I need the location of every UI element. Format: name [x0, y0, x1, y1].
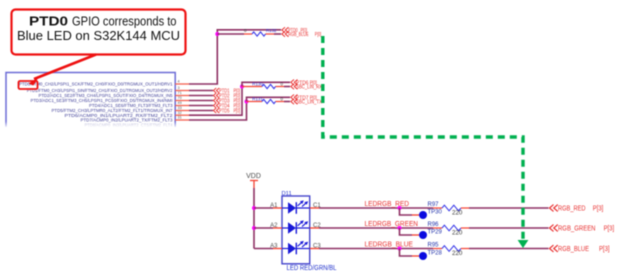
junction R131: [245, 100, 249, 104]
wire PTD5: [189, 110, 213, 112]
wire R132 to RGB_BLUE label: [274, 33, 281, 35]
wire R131 to SBC_LIN_TX label: [284, 101, 290, 103]
svg-text:R96: R96: [428, 222, 440, 228]
wire VDD to A3: [254, 248, 273, 250]
net label PTD1: [213, 88, 219, 93]
wire R130 to SBC_LIN_RX label: [284, 86, 290, 88]
junction at PTD0 / R132: [215, 32, 219, 36]
svg-text:70: 70: [178, 96, 182, 100]
svg-text:A1: A1: [270, 203, 278, 209]
svg-text:R131: R131: [252, 96, 263, 101]
wire PTD0 to R132: [217, 33, 244, 35]
junction TP29: [398, 226, 402, 230]
MCU pin 1 lead: [175, 100, 189, 102]
svg-text:220: 220: [452, 229, 463, 236]
D11 pin A1: [273, 207, 282, 209]
svg-text:R130: R130: [252, 81, 263, 86]
wire R96 to port: [469, 227, 549, 229]
svg-text:32: 32: [178, 111, 182, 115]
MCU pin 70 lead: [175, 110, 189, 112]
MCU pin 2 lead: [175, 95, 189, 97]
LED element red (row 1): [282, 200, 310, 213]
port RGB_BLUE: [550, 245, 558, 252]
net label PTD5: [213, 108, 219, 113]
MCU pin 3 lead: [175, 90, 189, 92]
junction R130: [240, 85, 244, 89]
wire R95 to port: [469, 248, 549, 250]
annotation arrow (green dashed): [323, 36, 523, 240]
net label SBC_LIN_RX: [291, 84, 298, 90]
resistor R130 leads: [242, 86, 262, 88]
svg-text:LEDRGB_RED: LEDRGB_RED: [365, 201, 410, 208]
wire PTD0 net: pin4 right then up to junction: [189, 34, 217, 84]
svg-text:220: 220: [452, 209, 463, 216]
svg-text:TP28: TP28: [428, 250, 443, 256]
svg-text:4: 4: [178, 80, 180, 84]
test point TP28: [400, 249, 413, 257]
net label PTD3: [213, 98, 219, 103]
LED D11 symbol body: [282, 196, 310, 264]
wire PTD6 feed: right then up to R130 junction: [189, 87, 242, 116]
net label PTD2: [213, 93, 219, 98]
PTD0 highlight box on pin name: [19, 81, 38, 89]
wire PTD0 to net label (upper branch): [217, 30, 281, 34]
svg-text:P[3]: P[3]: [599, 246, 610, 253]
wire VDD to A2: [254, 227, 273, 229]
D11 pin C2: [310, 227, 319, 229]
MCU pin 33 lead: [175, 114, 189, 116]
svg-text:GPIO corresponds to: GPIO corresponds to: [72, 14, 177, 29]
wire PTD6 upper branch to label: [242, 82, 290, 86]
svg-text:PTD0: PTD0: [29, 14, 68, 29]
svg-text:R132: R132: [266, 28, 277, 33]
svg-text:LEDRGB_BLUE: LEDRGB_BLUE: [365, 242, 414, 249]
net label PTD7: [291, 95, 298, 101]
resistor R131 body: [262, 99, 276, 103]
svg-text:TP30: TP30: [428, 209, 443, 215]
svg-text:220: 220: [452, 250, 463, 257]
svg-text:RGB_GREEN: RGB_GREEN: [558, 225, 596, 232]
svg-text:LED RED/GRN/BL: LED RED/GRN/BL: [287, 265, 337, 272]
wire PTD3: [189, 100, 213, 102]
wire PTD1: [189, 90, 213, 92]
LED element blue (row 3): [282, 241, 310, 254]
svg-text:A3: A3: [270, 243, 278, 249]
wire LEDRGB_RED: [319, 207, 433, 209]
svg-text:R97: R97: [428, 202, 440, 208]
svg-text:D11: D11: [282, 191, 292, 197]
callout arrow: [34, 55, 96, 80]
D11 pin A3: [273, 248, 282, 250]
port RGB_RED: [550, 205, 558, 212]
svg-text:P[3]: P[3]: [604, 225, 615, 232]
resistor R131 leads: [247, 101, 263, 103]
svg-text:PTD0/FTM0_CH2/LPSPI1_SCK/FTM2_: PTD0/FTM0_CH2/LPSPI1_SCK/FTM2_CH0/FXIO_D…: [19, 82, 173, 87]
net label RGB_BLUE: [282, 31, 289, 37]
test point TP30: [400, 208, 413, 215]
wire R97 to port: [469, 207, 549, 209]
MCU pin 4 lead: [175, 83, 189, 85]
wire VDD to A1: [254, 207, 273, 209]
junction TP28: [398, 247, 402, 251]
junction VDD/A1: [252, 206, 256, 210]
svg-text:3: 3: [178, 86, 180, 90]
resistor R132 leads: [244, 33, 252, 35]
port RGB_GREEN: [550, 225, 558, 232]
svg-text:R95: R95: [428, 243, 440, 249]
D11 pin A2: [273, 227, 282, 229]
svg-text:VDD: VDD: [246, 173, 261, 180]
D11 pin C3: [310, 248, 319, 250]
net label PTD0: [282, 27, 289, 33]
svg-text:71: 71: [178, 91, 182, 95]
D11 pin C1: [310, 207, 319, 209]
svg-text:33: 33: [178, 106, 182, 110]
resistor R130 body: [262, 84, 276, 88]
svg-text:Blue LED on S32K144 MCU: Blue LED on S32K144 MCU: [17, 28, 180, 43]
net label SBC_LIN_TX: [291, 99, 298, 105]
svg-text:A2: A2: [270, 223, 278, 229]
net label PTD6: [291, 80, 298, 86]
svg-text:RGB_BLUE: RGB_BLUE: [288, 32, 309, 38]
svg-text:SBC_LIN_TX: SBC_LIN_TX: [296, 100, 322, 106]
resistor R132 body: [252, 32, 266, 36]
junction VDD/A2: [252, 226, 256, 230]
wire LEDRGB_BLUE: [319, 248, 433, 250]
svg-text:31: 31: [178, 116, 182, 120]
svg-text:RGB_BLUE: RGB_BLUE: [558, 246, 589, 253]
MCU U1 symbol body (S32K144, partial): [6, 73, 175, 128]
net label PTD4: [213, 103, 219, 108]
svg-text:49: 49: [178, 101, 182, 105]
svg-text:P[0]: P[0]: [315, 32, 322, 38]
svg-text:TP29: TP29: [428, 229, 443, 235]
svg-text:RGB_RED: RGB_RED: [558, 205, 586, 212]
wire LEDRGB_GREEN: [319, 227, 433, 229]
wire PTD7 feed: right then up to R131 junction: [189, 102, 247, 121]
LED element green (row 2): [282, 220, 310, 233]
svg-text:P[0]: P[0]: [234, 108, 241, 114]
MCU pin 32 lead: [175, 119, 189, 121]
wire PTD4: [189, 105, 213, 107]
junction TP30: [398, 206, 402, 210]
wire PTD2: [189, 95, 213, 97]
svg-text:SBC_LIN_RX: SBC_LIN_RX: [296, 85, 322, 91]
callout note box: [12, 10, 186, 55]
svg-text:P[3]: P[3]: [593, 205, 604, 212]
test point TP29: [400, 228, 413, 235]
svg-text:PTD5: PTD5: [219, 108, 230, 114]
MCU pin 79 lead: [175, 105, 189, 107]
svg-text:LEDRGB_GREEN: LEDRGB_GREEN: [365, 221, 419, 228]
wire VDD rail: [253, 188, 255, 249]
wire PTD7 upper branch to label: [247, 97, 291, 101]
